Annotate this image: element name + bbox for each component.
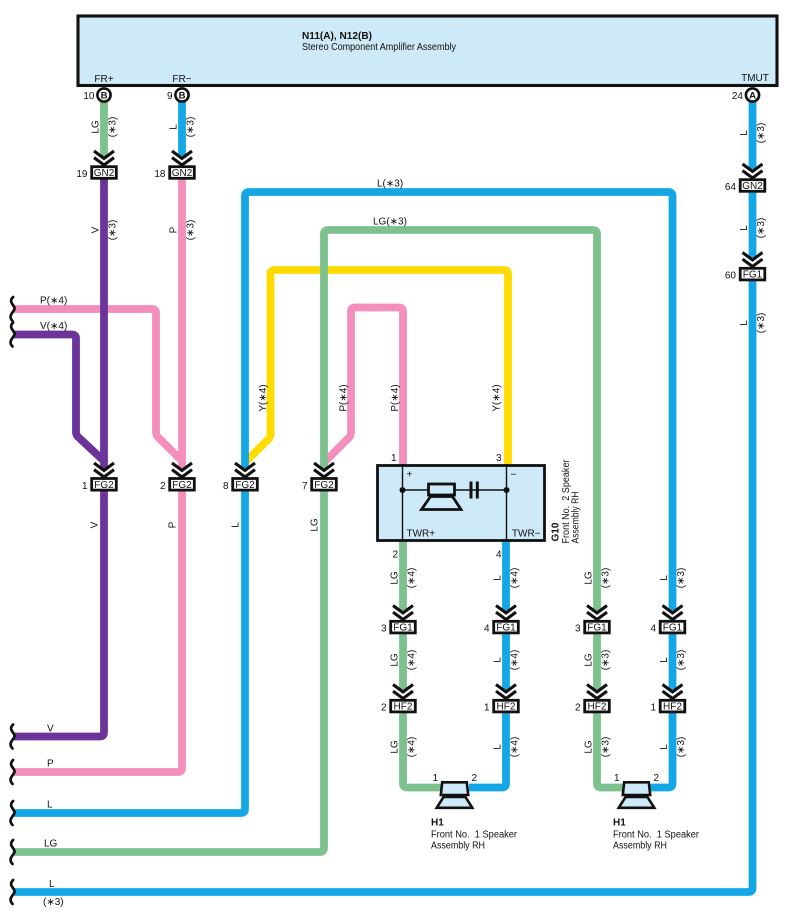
svg-text:FG2: FG2 [235, 480, 255, 491]
ECU box N11/N12 Stereo Component Amplifier Assembly [78, 16, 777, 86]
wire L(*3) from FG2-8 junction across to FG1-4 right chain (blue) [245, 192, 673, 611]
svg-text:Assembly RH: Assembly RH [571, 492, 582, 544]
connector FG2 pin 7 [302, 479, 336, 492]
svg-text:FG2: FG2 [172, 480, 192, 491]
svg-text:FG2: FG2 [314, 480, 334, 491]
pin name FR- [172, 74, 191, 85]
label Front No. 1 Speaker right [613, 830, 700, 841]
pin number 3 of G10 [496, 453, 502, 464]
connector FG1 pin 3 left [381, 621, 415, 634]
svg-text:LG: LG [91, 120, 102, 134]
wire label LG(*3) on horizontal run [373, 217, 407, 228]
svg-text:2: 2 [160, 481, 166, 492]
svg-text:LG: LG [390, 653, 401, 667]
svg-text:18: 18 [154, 169, 166, 180]
wire label LG(*4) FG1-HF2 note label [407, 650, 418, 671]
connector GN2 pin 19 [76, 167, 116, 180]
svg-text:L: L [231, 522, 242, 528]
pin 1 of H1 left speaker [432, 773, 438, 784]
wire LG(*4) G10 pin2 to FG1-3 (green) [399, 541, 407, 611]
svg-text:G10: G10 [551, 522, 562, 541]
svg-text:FR+: FR+ [94, 74, 113, 85]
pin number 2 of G10 [392, 550, 398, 561]
svg-text:LG: LG [584, 740, 595, 754]
svg-text:TWR+: TWR+ [407, 529, 436, 540]
svg-text:2: 2 [654, 773, 660, 784]
wire LG from FG2-7 to left edge (green) [14, 492, 324, 853]
svg-text:L: L [493, 657, 504, 663]
pin number 4 of G10 [496, 550, 502, 561]
svg-text:2: 2 [575, 703, 581, 714]
wire V(*3) GN2-19 to FG2-1 (purple) [100, 180, 108, 469]
wire label L at left exit [47, 800, 53, 811]
label H1 right [613, 818, 626, 829]
arrow into FG1-3 left [393, 606, 413, 620]
svg-text:B: B [179, 90, 186, 101]
continuation mark for wire L(*3) bottom [11, 880, 15, 904]
wire label L(*4) G10-FG1 note label [510, 568, 521, 589]
svg-text:HF2: HF2 [394, 702, 413, 713]
wire label Y(*4) right leg [492, 384, 503, 411]
svg-text:A: A [749, 90, 756, 101]
wire label P(*4) at left entry [40, 296, 67, 307]
svg-text:V: V [90, 521, 101, 528]
svg-text:TMUT: TMUT [741, 73, 769, 84]
wire LG(*4) FG1-3 to HF2-2 (green) [399, 634, 407, 690]
wire V(*4) from left edge continuation to FG2-1 (purple) [14, 335, 104, 462]
svg-text:64: 64 [725, 182, 737, 193]
svg-text:L: L [169, 124, 180, 130]
wire label LG(*4) HF2-speaker note label [407, 737, 418, 758]
svg-text:HF2: HF2 [497, 702, 516, 713]
svg-text:HF2: HF2 [663, 702, 682, 713]
wire label L(*3) HF2-speaker right colour label [659, 744, 670, 750]
wire label V below FG2-1 [90, 521, 101, 528]
wire label L(*3) below FG1-60 note label [756, 313, 767, 334]
svg-text:4: 4 [496, 550, 502, 561]
wire label LG(*3) HF2-speaker right note label [601, 737, 612, 758]
wire label LG(*3) HF2-speaker right colour label [584, 740, 595, 754]
wire L(*3) GN2-64 to FG1-60 (blue) [749, 193, 757, 258]
arrow into HF2-2 left [393, 685, 413, 699]
svg-text:(∗3): (∗3) [756, 123, 767, 144]
svg-text:L: L [493, 744, 504, 750]
svg-text:L: L [739, 130, 750, 136]
svg-text:+: + [407, 470, 413, 481]
svg-text:2: 2 [392, 550, 398, 561]
svg-text:(∗3): (∗3) [601, 737, 612, 758]
wire label LG(*3) pin10-GN2 note label [108, 117, 119, 138]
wire LG(*3) pin10 to GN2-19 (green) [100, 100, 108, 156]
connector FG1 pin 60 [725, 268, 765, 281]
svg-text:Assembly RH: Assembly RH [613, 841, 667, 852]
svg-text:L: L [47, 800, 53, 811]
wire LG(*3) from FG2-7 junction across to FG1-3 right chain (green) [324, 230, 597, 611]
svg-text:B: B [101, 90, 108, 101]
svg-text:P: P [169, 226, 180, 233]
svg-text:FR−: FR− [172, 74, 191, 85]
connector FG1 pin 4 left [484, 621, 518, 634]
svg-text:P(∗4): P(∗4) [390, 384, 401, 411]
wire label LG(*4) HF2-speaker colour label [390, 740, 401, 754]
svg-text:1: 1 [614, 773, 620, 784]
wire label L(*3) pin24-GN2 note label [756, 123, 767, 144]
svg-text:LG: LG [584, 653, 595, 667]
G10 internal wire + to - [403, 489, 507, 491]
svg-text:P: P [47, 759, 54, 770]
svg-text:GN2: GN2 [742, 181, 763, 192]
wire label LG(*4) G10-FG1 note label [407, 568, 418, 589]
wire label L(*3) pin24-GN2 colour label [739, 130, 750, 136]
wire label L(*3) below FG1-60 colour label [739, 320, 750, 326]
svg-text:FG1: FG1 [663, 623, 683, 634]
svg-text:L: L [659, 657, 670, 663]
svg-text:Front No. 1 Speaker: Front No. 1 Speaker [431, 830, 518, 841]
svg-text:GN2: GN2 [94, 168, 115, 179]
svg-text:19: 19 [76, 169, 88, 180]
svg-text:FG1: FG1 [393, 623, 413, 634]
svg-text:4: 4 [484, 624, 490, 635]
wire label LG(*3) above FG1 right note label [601, 568, 612, 589]
svg-text:LG: LG [390, 740, 401, 754]
pin 10 connector B of N11/N12 [83, 88, 110, 101]
svg-text:FG1: FG1 [496, 623, 516, 634]
svg-text:LG(∗3): LG(∗3) [373, 217, 407, 228]
svg-text:(∗3): (∗3) [108, 117, 119, 138]
wire label (*3) at bottom left exit [43, 897, 64, 908]
connector FG2 pin 2 [160, 479, 194, 492]
svg-text:V: V [91, 226, 102, 233]
label Front No. 1 Speaker left [431, 830, 518, 841]
G10 internal pin line 3-4 [506, 464, 508, 541]
svg-text:H1: H1 [431, 818, 444, 829]
wire label LG(*3) FG1-HF2 right note label [601, 650, 612, 671]
svg-text:8: 8 [223, 481, 229, 492]
svg-text:LG: LG [44, 839, 58, 850]
svg-text:P(∗4): P(∗4) [339, 384, 350, 411]
wire label V(*3) GN2-FG2 colour label [91, 226, 102, 233]
arrow into FG2-2 [172, 463, 192, 477]
svg-text:2: 2 [472, 773, 478, 784]
svg-text:V(∗4): V(∗4) [40, 321, 67, 332]
svg-text:L: L [49, 879, 55, 890]
wire label L below FG2-8 [231, 522, 242, 528]
svg-text:(∗3): (∗3) [186, 117, 197, 138]
wire label L(*3) HF2-speaker right note label [676, 737, 687, 758]
pin 1 of H1 right speaker [614, 773, 620, 784]
pin 24 connector A of N11/N12 [732, 88, 759, 101]
svg-text:(∗4): (∗4) [407, 650, 418, 671]
arrow into FG1-4 right [663, 606, 683, 620]
svg-text:P: P [168, 521, 179, 528]
svg-text:FG1: FG1 [587, 623, 607, 634]
svg-text:1: 1 [484, 703, 490, 714]
svg-text:(∗3): (∗3) [186, 220, 197, 241]
wire label LG at left exit [44, 839, 58, 850]
svg-text:TWR−: TWR− [512, 529, 541, 540]
arrow into FG1-4 left [496, 606, 516, 620]
wire L from FG2-8 to left edge (blue) [14, 492, 245, 814]
svg-text:1: 1 [432, 773, 438, 784]
connector HF2 pin 1 left [484, 700, 518, 713]
continuation mark for wire V(*4) [11, 323, 15, 347]
svg-text:L: L [739, 320, 750, 326]
svg-text:60: 60 [725, 271, 737, 282]
arrow into HF2-1 left [496, 685, 516, 699]
svg-text:9: 9 [167, 91, 173, 102]
svg-text:L: L [739, 225, 750, 231]
connector FG2 pin 8 [223, 479, 257, 492]
svg-text:Assembly RH: Assembly RH [431, 841, 485, 852]
svg-text:Stereo Component Amplifier Ass: Stereo Component Amplifier Assembly [302, 42, 456, 53]
wire label Y(*4) left leg [258, 384, 269, 411]
wire label L(*3) pin9-GN2 colour label [169, 124, 180, 130]
wire label L(*3) above FG1 right colour label [659, 575, 670, 581]
wire label LG(*4) FG1-HF2 colour label [390, 653, 401, 667]
wire LG(*3) FG1-3 to HF2-2 second chain (green) [593, 634, 601, 690]
wire L(*3) pin9 to GN2-18 (blue) [178, 100, 186, 156]
svg-text:(∗3): (∗3) [676, 650, 687, 671]
wire label L(*4) HF2-speaker note label [510, 737, 521, 758]
G10 internal pin line 1-2 [402, 464, 404, 541]
svg-text:(∗4): (∗4) [510, 737, 521, 758]
svg-text:(∗3): (∗3) [43, 897, 64, 908]
svg-text:1: 1 [391, 453, 397, 464]
svg-text:H1: H1 [613, 818, 626, 829]
svg-text:24: 24 [732, 91, 744, 102]
label N11(A), N12(B) [302, 31, 372, 42]
wire L(*4) FG1-4 to HF2-1 (blue) [502, 634, 510, 690]
svg-text:Y(∗4): Y(∗4) [258, 384, 269, 411]
continuation mark for wire P(*4) [11, 297, 15, 321]
svg-text:V: V [47, 724, 54, 735]
connector HF2 pin 1 right [650, 700, 684, 713]
svg-text:7: 7 [302, 481, 308, 492]
svg-text:(∗3): (∗3) [756, 313, 767, 334]
svg-text:Front No. 1 Speaker: Front No. 1 Speaker [613, 830, 700, 841]
junction node at G10 pin 3 line [504, 487, 510, 493]
label Front No. 2 Speaker (rotated) [561, 459, 572, 544]
label + at G10 pin 1 [407, 470, 413, 481]
svg-text:(∗3): (∗3) [676, 737, 687, 758]
svg-text:LG: LG [390, 571, 401, 585]
wire label LG(*3) FG1-HF2 right colour label [584, 653, 595, 667]
wire label L(*3) GN2-FG1 note label [756, 218, 767, 239]
svg-text:FG2: FG2 [94, 480, 114, 491]
wire Y(*4) from junction FG2-8 to G10 pin 3 (yellow) [246, 270, 509, 466]
wire L(*3) FG1-4 to HF2-1 second chain (blue) [669, 634, 677, 690]
wire label L(*4) FG1-HF2 note label [510, 650, 521, 671]
connector HF2 pin 2 right [575, 700, 609, 713]
wire L(*3) HF2-1 to H1 speaker2 pin2 (blue) [651, 713, 673, 788]
connector HF2 pin 2 left [381, 700, 415, 713]
svg-text:(∗4): (∗4) [510, 568, 521, 589]
svg-text:(∗4): (∗4) [407, 737, 418, 758]
svg-text:3: 3 [575, 624, 581, 635]
arrow into FG2-8 [235, 463, 255, 477]
continuation mark for wire P [11, 760, 15, 784]
svg-text:GN2: GN2 [172, 168, 193, 179]
svg-text:(∗4): (∗4) [510, 650, 521, 671]
arrow into GN2-18 [172, 151, 192, 165]
wire label P(*4) left leg of n wire [339, 384, 350, 411]
wire label L(*4) G10-FG1 colour label [493, 575, 504, 581]
svg-text:4: 4 [650, 624, 656, 635]
label Stereo Component Amplifier Assembly [302, 42, 456, 53]
speaker H1 Front No. 1 Speaker Assembly RH (right) symbol [619, 782, 655, 808]
label Assembly RH (rotated) [571, 492, 582, 544]
connector FG2 pin 1 [82, 479, 116, 492]
svg-text:L: L [659, 744, 670, 750]
svg-text:(∗3): (∗3) [601, 650, 612, 671]
wire label L(*3) FG1-HF2 right colour label [659, 657, 670, 663]
wire label P(*3) GN2-FG2 colour label [169, 226, 180, 233]
wire label LG(*4) G10-FG1 colour label [390, 571, 401, 585]
svg-text:(∗4): (∗4) [407, 568, 418, 589]
junction node at G10 pin 1 line [400, 487, 406, 493]
label Assembly RH right [613, 841, 667, 852]
connector GN2 pin 64 [725, 180, 765, 193]
wire label L(*3) above FG1 right note label [676, 568, 687, 589]
pin 2 of H1 left speaker [472, 773, 478, 784]
pin number 1 of G10 [391, 453, 397, 464]
connector GN2 pin 18 [154, 167, 194, 180]
label H1 left [431, 818, 444, 829]
svg-text:LG: LG [310, 518, 321, 532]
svg-text:(∗3): (∗3) [601, 568, 612, 589]
pin name TMUT [741, 73, 769, 84]
svg-text:(∗3): (∗3) [676, 568, 687, 589]
speaker H1 Front No. 1 Speaker Assembly RH (left) symbol [437, 782, 473, 808]
wire label L(*3) GN2-FG1 colour label [739, 225, 750, 231]
wire label LG(*3) above FG1 right colour label [584, 571, 595, 585]
arrow into FG2-1 [94, 463, 114, 477]
continuation mark for wire L [11, 801, 15, 825]
wire label P(*4) right leg of n wire [390, 384, 401, 411]
svg-text:(∗3): (∗3) [756, 218, 767, 239]
wire label P at left exit [47, 759, 54, 770]
wire L(*4) HF2-1 to H1 speaker1 pin2 (blue) [469, 713, 506, 788]
svg-text:L: L [659, 575, 670, 581]
connector FG1 pin 3 right [575, 621, 609, 634]
wire L(*4) G10 pin4 to FG1-4 (blue) [502, 541, 510, 611]
svg-text:FG1: FG1 [743, 270, 763, 281]
svg-text:10: 10 [83, 91, 95, 102]
label G10 (rotated) [551, 522, 562, 541]
speaker element symbol in G10 [422, 484, 462, 510]
wire LG(*4) HF2-2 to H1 speaker1 pin1 (green) [403, 713, 442, 788]
pin name FR+ [94, 74, 113, 85]
svg-text:P(∗4): P(∗4) [40, 296, 67, 307]
svg-text:LG: LG [584, 571, 595, 585]
wire label V at left exit [47, 724, 54, 735]
wire label L(*3) FG1-HF2 right note label [676, 650, 687, 671]
svg-text:(∗3): (∗3) [108, 220, 119, 241]
capacitor symbol in G10 [471, 482, 477, 499]
arrow into FG1-60 [743, 253, 763, 267]
wire V from FG2-1 to left edge (purple) [14, 492, 104, 737]
wire LG(*3) HF2-2 to H1 speaker2 pin1 (green) [597, 713, 623, 788]
wire label L at bottom left exit [49, 879, 55, 890]
svg-text:1: 1 [82, 481, 88, 492]
arrow into FG2-7 [314, 463, 334, 477]
wire P(*4) from left edge continuation to FG2-2 (pink) [14, 309, 182, 461]
continuation mark for wire LG [11, 840, 15, 864]
wire L(*3) pin24 to GN2-64 (blue) [749, 100, 757, 169]
speaker G10 Front No. 2 Speaker Assembly RH box [378, 466, 545, 541]
wire L(*3) FG1-60 down and across bottom to left edge (blue) [14, 281, 753, 892]
wire P(*4) from junction FG2-7 to G10 pin 1 (pink) [325, 308, 404, 467]
wire label L(*4) FG1-HF2 colour label [493, 657, 504, 663]
wire P from FG2-2 to left edge (pink) [14, 492, 182, 773]
arrow into HF2-1 right [663, 685, 683, 699]
arrow into GN2-19 [94, 151, 114, 165]
svg-text:L: L [493, 575, 504, 581]
svg-text:3: 3 [381, 624, 387, 635]
arrow into FG1-3 right [587, 606, 607, 620]
svg-text:HF2: HF2 [588, 702, 607, 713]
label Assembly RH left [431, 841, 485, 852]
wire label P below FG2-2 [168, 521, 179, 528]
wire label L(*3) on top horizontal run [377, 179, 403, 190]
svg-text:−: − [511, 470, 517, 481]
label TWR+ [407, 529, 436, 540]
wire P(*3) GN2-18 to FG2-2 (pink) [178, 180, 186, 469]
wire label L(*3) pin9-GN2 note label [186, 117, 197, 138]
svg-text:L(∗3): L(∗3) [377, 179, 403, 190]
pin 2 of H1 right speaker [654, 773, 660, 784]
wire label V(*3) GN2-FG2 note label [108, 220, 119, 241]
wire label LG(*3) pin10-GN2 colour label [91, 120, 102, 134]
svg-text:1: 1 [650, 703, 656, 714]
svg-text:N11(A), N12(B): N11(A), N12(B) [302, 31, 372, 42]
wire label L(*4) HF2-speaker colour label [493, 744, 504, 750]
connector FG1 pin 4 right [650, 621, 684, 634]
continuation mark for wire V [11, 725, 15, 749]
pin 9 connector B of N11/N12 [167, 88, 189, 101]
arrow into HF2-2 right [587, 685, 607, 699]
wire label P(*3) GN2-FG2 note label [186, 220, 197, 241]
wire label V(*4) at left entry [40, 321, 67, 332]
arrow into GN2-64 [743, 164, 763, 178]
svg-text:Y(∗4): Y(∗4) [492, 384, 503, 411]
svg-text:2: 2 [381, 703, 387, 714]
wire label LG below FG2-7 [310, 518, 321, 532]
svg-text:3: 3 [496, 453, 502, 464]
label TWR- [512, 529, 541, 540]
label - at G10 pin 3 [511, 470, 517, 481]
